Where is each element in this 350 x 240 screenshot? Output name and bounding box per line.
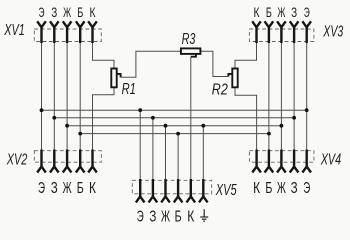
wire column Ж right (XV3 to XV4) <box>280 43 282 150</box>
wire R2 bottom to XV4 pin К <box>235 87 257 149</box>
svg-text:Э: Э <box>137 208 144 225</box>
XV3 contact pin З (socket) <box>290 21 299 43</box>
svg-text:З: З <box>291 4 297 20</box>
resistor R1 wiper arm <box>117 74 121 77</box>
XV1 contact pin 1 (socket) <box>37 21 46 43</box>
XV4 contact pin К (socket) <box>252 150 261 173</box>
junction node Б-left <box>78 132 82 136</box>
junction node З-right <box>292 116 296 120</box>
resistor R3 wiper arm <box>191 54 196 57</box>
svg-text:XV5: XV5 <box>215 182 237 199</box>
svg-text:Ж: Ж <box>277 4 285 20</box>
connector XV1 body outline (dashed) <box>34 29 101 42</box>
svg-text:Э: Э <box>303 180 310 197</box>
XV1 contact pin 2 (socket) <box>50 21 59 43</box>
svg-text:Ж: Ж <box>63 180 72 197</box>
wire column Ж left (XV1 pin3 to XV2 pin3) <box>66 43 68 150</box>
svg-text:Э: Э <box>39 4 45 20</box>
svg-text:К: К <box>90 4 97 20</box>
svg-text:XV2: XV2 <box>6 151 27 168</box>
svg-text:К: К <box>253 180 261 197</box>
XV4 contact pin Ж (socket) <box>277 150 286 173</box>
svg-text:XV3: XV3 <box>323 23 344 40</box>
wire R3 wiper to XV5 pin К <box>190 57 192 179</box>
svg-text:Б: Б <box>77 180 84 197</box>
svg-text:К: К <box>187 208 195 225</box>
svg-text:XV4: XV4 <box>320 151 341 168</box>
svg-text:Э: Э <box>38 180 45 197</box>
wire column З right (XV3 to XV4) <box>293 43 295 150</box>
wire column Б left (XV1 pin4 to XV2 pin4) <box>79 43 81 150</box>
XV2 contact pin 5 (socket) <box>88 150 97 173</box>
wire R3 right terminal to R2 wiper <box>200 51 228 76</box>
resistor R1 body <box>111 69 116 88</box>
wire XV5 З drop <box>152 118 154 179</box>
wire column Э right (XV3 to XV4) <box>306 43 308 150</box>
wire column Э left (XV1 pin1 to XV2 pin1) <box>41 43 43 150</box>
junction node Ж-right <box>280 124 284 128</box>
XV3 contact pin Э (socket) <box>302 21 311 43</box>
svg-text:Б: Б <box>265 180 272 197</box>
svg-text:К: К <box>254 4 261 20</box>
junction node Б-right <box>267 132 271 136</box>
XV2 contact pin 3 (socket) <box>63 150 72 173</box>
XV1 contact pin 3 (socket) <box>63 21 72 43</box>
svg-text:Э: Э <box>304 4 310 20</box>
wire XV5 Б drop <box>177 134 179 179</box>
ground symbol (XV5 pin 6) <box>200 209 208 221</box>
wire XV5 Э drop <box>139 110 141 179</box>
junction node XV5-З <box>151 116 155 120</box>
connector XV5 body outline (dashed) <box>132 180 211 194</box>
XV1 contact pin 5 (socket) <box>88 21 97 43</box>
XV4 contact pin З (socket) <box>290 150 299 173</box>
junction node Ж-left <box>65 124 69 128</box>
svg-text:R2: R2 <box>212 82 228 99</box>
svg-text:XV1: XV1 <box>4 22 25 39</box>
XV2 contact pin 4 (socket) <box>76 150 85 173</box>
XV1 contact pin 4 (socket) <box>76 21 85 43</box>
XV2 contact pin 2 (socket) <box>50 150 59 173</box>
wire bus Б (horizontal) <box>80 133 269 135</box>
wire XV3 pin К to R2 top <box>235 43 257 69</box>
svg-text:R1: R1 <box>122 81 136 98</box>
XV4 contact pin Б (socket) <box>265 150 274 173</box>
connector XV2 body outline (dashed) <box>34 151 101 163</box>
junction node Э-right <box>305 108 309 112</box>
svg-text:З: З <box>291 180 298 197</box>
svg-text:Ж: Ж <box>277 180 286 197</box>
wire XV5 Ж drop <box>165 126 167 179</box>
XV3 contact pin К (socket) <box>252 21 261 43</box>
junction node XV5-Ж <box>164 124 168 128</box>
svg-text:З: З <box>149 208 156 225</box>
junction node XV5-earth on Ж bus <box>201 124 205 128</box>
XV3 contact pin Ж (socket) <box>277 21 286 43</box>
resistor R2 body <box>232 69 237 88</box>
wire bus З (horizontal) <box>54 117 294 119</box>
svg-text:Б: Б <box>175 208 182 225</box>
resistor R2 wiper arm <box>228 74 232 77</box>
XV5 contact pin З (socket) <box>149 179 158 202</box>
wire R1 bottom to XV2 pin К <box>93 87 115 149</box>
XV4 contact pin Э (socket) <box>302 150 311 173</box>
svg-text:Б: Б <box>266 4 272 20</box>
XV2 contact pin 1 (socket) <box>37 150 46 173</box>
connector XV3 body outline (dashed) <box>249 29 314 42</box>
wire R1 wiper to R3 left terminal <box>121 51 181 77</box>
svg-text:Ж: Ж <box>63 4 71 20</box>
XV3 contact pin Б (socket) <box>265 21 274 43</box>
wire bus Э (horizontal) <box>42 109 307 111</box>
wire column З left (XV1 pin2 to XV2 pin2) <box>53 43 55 150</box>
XV5 contact pin Ж (socket) <box>161 179 170 202</box>
connector XV4 body outline (dashed) <box>249 151 314 163</box>
XV5 contact pin 6 earth (socket) <box>199 179 208 202</box>
svg-text:К: К <box>89 180 97 197</box>
wire column Б right (XV3 to XV4) <box>268 43 270 150</box>
junction node Э-left <box>40 108 44 112</box>
junction node XV5-Б <box>176 132 180 136</box>
XV5 contact pin К (socket) <box>187 179 196 202</box>
svg-text:З: З <box>51 4 57 20</box>
svg-text:Ж: Ж <box>161 208 170 225</box>
wire XV1 pin К to R1 top <box>93 43 115 69</box>
resistor R3 body <box>181 48 201 54</box>
svg-text:З: З <box>51 180 58 197</box>
XV5 contact pin Б (socket) <box>174 179 183 202</box>
junction node XV5-Э <box>138 108 142 112</box>
svg-text:R3: R3 <box>182 31 196 48</box>
junction node З-left <box>52 116 56 120</box>
wire bus Ж (horizontal) <box>67 125 281 127</box>
wire XV5 earth drop <box>202 126 204 179</box>
XV5 contact pin Э (socket) <box>136 179 145 202</box>
svg-text:Б: Б <box>77 4 83 20</box>
